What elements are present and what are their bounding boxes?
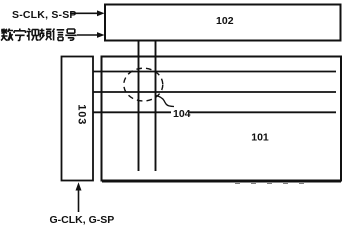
pixel region 104 dashed circle (124, 68, 163, 101)
char 信 (53, 29, 65, 41)
char 号 (65, 29, 76, 40)
wire: S-CLK arrow into 102 (70, 12, 98, 14)
wire: G-CLK arrow into 103 (78, 191, 80, 213)
svg-text:S-CLK, S-SP: S-CLK, S-SP (12, 9, 77, 21)
box 101 (pixel panel) (102, 57, 342, 181)
char 频 (39, 29, 51, 41)
wire: digital video signal arrow into 102 (77, 34, 98, 36)
box 102 (source driver) (105, 5, 341, 41)
svg-text:103: 103 (75, 104, 87, 125)
box 103 (gate driver) (62, 57, 94, 181)
leader squiggle to 104 (155, 95, 174, 106)
label 数字视频信号 (digital video signal, drawn strokes) (1, 29, 77, 41)
svg-text:104: 104 (173, 108, 191, 120)
svg-text:G-CLK, G-SP: G-CLK, G-SP (50, 214, 115, 226)
gate line 3 (right of label 104) (190, 111, 337, 113)
char 字 (14, 29, 25, 41)
char 数 (1, 29, 13, 41)
source line 2 (155, 41, 157, 171)
gate line 1 (93, 71, 336, 73)
source line 1 (138, 41, 140, 171)
svg-text:102: 102 (216, 15, 234, 27)
char 视 (27, 29, 39, 41)
svg-text:101: 101 (251, 132, 269, 144)
gate line 2 (93, 91, 336, 93)
gate line 3 (left of label 104) (93, 111, 171, 113)
box 101 bottom edge thickening (102, 181, 341, 183)
box 101 bottom scan speckles (235, 182, 310, 184)
